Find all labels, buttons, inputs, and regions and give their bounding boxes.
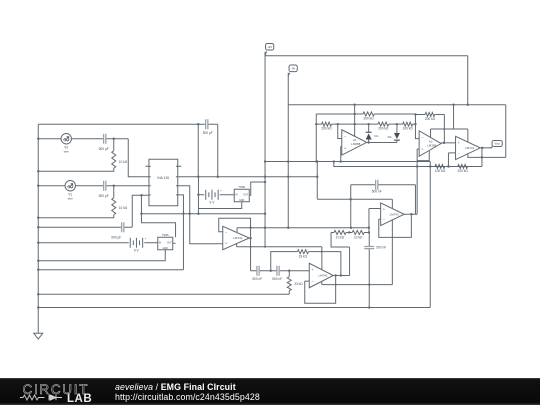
junction rail161 x264.8 <box>264 160 266 162</box>
wire supply right vertical x505.5 <box>505 105 507 158</box>
wire 10k left end down <box>331 232 350 275</box>
wire U5 output <box>333 274 349 276</box>
junction x481.7 rail157 <box>481 156 483 158</box>
wire bottom rail y307.3 <box>38 307 430 309</box>
wire U2 V+ power stub <box>467 129 469 142</box>
wire V2 row <box>38 139 149 177</box>
junction x369 y307.3 <box>368 306 370 308</box>
diode D2 <box>388 133 400 140</box>
junction caps mid <box>270 270 272 272</box>
svg-text:10 kΩ: 10 kΩ <box>336 235 345 239</box>
wire A2 minus input vertical <box>415 114 419 138</box>
voltage regulator 7905 #1 <box>234 185 249 202</box>
junction U2 minus rail166 <box>447 165 449 167</box>
svg-text:+: + <box>311 268 313 272</box>
svg-text:+: + <box>220 189 222 193</box>
wire battery2 to reg <box>220 194 235 196</box>
svg-text:500 nF: 500 nF <box>252 277 262 281</box>
wire lp filter top rail <box>351 185 416 215</box>
svg-text:D1: D1 <box>374 134 378 138</box>
resistor R3 200 kOhm (A1 feedback) <box>363 112 374 121</box>
wire A2 Vminus stub <box>417 151 429 161</box>
junction 33k x321.6 <box>321 251 323 253</box>
wire rail y166.2 <box>334 162 482 167</box>
wire V1 row <box>38 185 149 187</box>
svg-text:IN: IN <box>159 242 162 245</box>
svg-text:LM741: LM741 <box>233 236 243 240</box>
wire A2 V+ power stub <box>430 129 432 138</box>
wire rail y269.5 <box>38 269 183 271</box>
wire A1 plus input <box>341 147 342 162</box>
junction A1 stub rail113 <box>353 113 355 115</box>
svg-text:100 kΩ: 100 kΩ <box>435 169 446 173</box>
wire D1 vertical <box>368 124 370 142</box>
svg-text:100 kΩ: 100 kΩ <box>403 127 414 131</box>
junction mid rail x264.8 <box>264 213 266 215</box>
wire -9V rail y104.5 <box>288 104 506 106</box>
svg-text:−: − <box>421 136 423 140</box>
capacitor C5 500 uF (top rail) <box>203 119 213 135</box>
wire A2 feedback rail y114.2 <box>415 114 444 142</box>
CircuitLab logo <box>0 378 110 405</box>
wire U3 V- power stub <box>391 220 393 237</box>
junction U5 out x340 <box>340 274 342 276</box>
junction A1 out D1 <box>367 141 369 143</box>
svg-text:Vout: Vout <box>494 142 500 146</box>
wire U2 Vminus stub and bottom rail <box>468 154 506 157</box>
junction out rail x217.5 <box>217 176 219 178</box>
capacitor C8 500 nF <box>252 266 262 281</box>
svg-text:33 kΩ: 33 kΩ <box>294 282 303 286</box>
wire right vertical x430 <box>429 162 431 308</box>
voltage source V1 <box>65 181 75 201</box>
junction mid rail x189.5 <box>189 213 191 215</box>
svg-text:LM741: LM741 <box>465 146 475 150</box>
wire U4 V- rail y246.5 <box>237 246 322 248</box>
svg-text:+: + <box>225 242 227 246</box>
wire rail y199 <box>317 198 392 200</box>
resistor R11 10 kOhm <box>352 230 364 239</box>
junction bus-V1 row <box>37 185 39 187</box>
wire vertical from top rail to INA rail (x217.5) <box>217 124 219 177</box>
wire 7905#2 GND down <box>38 250 165 261</box>
resistor R7 200 kOhm (A2 feedback) <box>425 112 436 121</box>
junction x335.4 y284.4 <box>335 284 337 286</box>
node +9V flag <box>265 43 274 55</box>
wire U3 output <box>404 213 417 215</box>
junction out rail x264.8 <box>264 176 266 178</box>
junction x316 rail161 <box>315 160 317 162</box>
junction rail161 x317 <box>316 160 318 162</box>
wire mid rail y213.5 <box>141 213 265 215</box>
junction A1 stub -9v rail <box>353 104 355 106</box>
resistor R6 100 kOhm <box>403 122 414 130</box>
resistor R9 200 kOhm <box>458 164 469 173</box>
svg-text:10 kΩ: 10 kΩ <box>119 206 128 210</box>
wire 7905#1 GND <box>198 202 241 209</box>
junction A2 out node <box>443 142 445 144</box>
wire R13 stubs <box>288 271 290 295</box>
capacitor C1 500 uF <box>99 134 109 151</box>
wire U4 V- power stub <box>236 244 238 247</box>
svg-text:500 nF: 500 nF <box>272 277 282 281</box>
wire vertical x317 <box>316 162 318 200</box>
resistor R10 10 kOhm <box>334 230 346 239</box>
wire R1 top stub <box>113 186 115 198</box>
junction x350.5 y199 <box>350 198 352 200</box>
wire vertical x198 top rail to INA out rail <box>197 124 199 177</box>
svg-text:−: − <box>225 231 227 235</box>
junction top rail x198 <box>197 123 199 125</box>
svg-text:sine: sine <box>64 150 70 154</box>
junction U4 out <box>249 237 251 239</box>
wire battery2 left <box>198 177 204 214</box>
svg-text:LM741: LM741 <box>318 274 328 278</box>
node Vout flag <box>490 140 502 147</box>
wire U2 output <box>480 147 492 149</box>
wire x392.1 lower <box>391 237 393 284</box>
wire U5 V- stub rail y284.4 <box>322 284 393 286</box>
resistor R2 10 kOhm <box>112 151 128 169</box>
junction gnd drop mid rail <box>197 213 199 215</box>
wire INA out rail y176.5 <box>178 176 318 178</box>
svg-text:−: − <box>311 279 313 283</box>
wire U5 V+ power stub <box>321 247 323 269</box>
svg-text:200 kΩ: 200 kΩ <box>378 127 389 131</box>
junction V2-R2 node <box>113 138 115 140</box>
wire 33k feedback <box>271 252 341 276</box>
footer title text <box>115 382 260 402</box>
junction -9v rail x467 <box>467 104 469 106</box>
wire left ground bus <box>37 124 39 333</box>
wire INA pin3 right to first amp <box>178 186 223 244</box>
svg-text:500 nF: 500 nF <box>376 246 386 250</box>
junction bus-V2 row <box>37 138 39 140</box>
wire R1 bottom return <box>38 215 114 218</box>
wire A1 output row y142.3 <box>367 142 397 144</box>
svg-text:500 µF: 500 µF <box>99 147 109 151</box>
voltage regulator 7905 #2 <box>158 233 173 250</box>
junction bus ref row <box>37 226 39 228</box>
wire U5 V- power stub <box>321 281 323 284</box>
battery V4 9V <box>206 189 222 205</box>
wire U3 V+ power stub <box>391 199 393 208</box>
junction U3 out x411 <box>410 213 412 215</box>
ground <box>34 333 43 339</box>
wire A1 top feedback rail y113.7 <box>316 113 415 115</box>
junction rail161 x333.6 <box>333 160 335 162</box>
battery V3 9V <box>130 237 146 253</box>
svg-text:D2: D2 <box>388 135 392 139</box>
wire INA ref node down to mid rail <box>141 195 175 237</box>
op-amp U3 LM741 <box>381 203 405 226</box>
svg-text:LM358: LM358 <box>351 142 361 146</box>
wire battery V3 row <box>38 242 158 244</box>
junction x316 rail123.9 <box>315 123 317 125</box>
resistor R13 33 kOhm <box>287 277 303 291</box>
junction bus rail307 <box>37 306 39 308</box>
svg-text:-9V: -9V <box>291 66 295 70</box>
svg-text:INA 126: INA 126 <box>157 176 169 180</box>
svg-text:+9V: +9V <box>267 45 272 49</box>
junction D2 top <box>396 123 398 125</box>
svg-text:LM358: LM358 <box>427 143 437 147</box>
junction x317 out rail <box>316 176 318 178</box>
wire A1 minus input <box>338 124 342 138</box>
wire V+ stub rail y128.7 <box>431 128 468 130</box>
voltage source V2 <box>61 134 71 154</box>
junction node INA ref pin <box>140 194 142 196</box>
resistor R12 33 kOhm <box>297 250 308 259</box>
wire INA pin4 right down rail <box>178 195 184 270</box>
wire hp caps row <box>251 270 310 272</box>
wire U3 minus input loop <box>379 214 412 237</box>
junction rail227 x288 <box>287 227 289 229</box>
junction U2 out <box>481 147 483 149</box>
junction rail227 x351 <box>350 227 352 229</box>
wire top-left rail <box>38 123 218 125</box>
junction x415 rail123.9 <box>414 123 416 125</box>
wire 7905#1 OUT <box>249 182 265 195</box>
wire A1 input rail y123.9 <box>316 123 415 125</box>
svg-text:+: + <box>421 148 423 152</box>
svg-text:OUT: OUT <box>243 194 249 197</box>
junction rail227 x368.7 <box>368 227 370 229</box>
svg-text:sine: sine <box>68 197 74 201</box>
junction bus 7905#2 gnd rail <box>37 260 39 262</box>
svg-text:+: + <box>383 207 385 211</box>
wire A2 plus input vertical (from U3 out) <box>417 149 419 214</box>
wire INA pin1 stubs <box>145 165 181 167</box>
junction 10k mid <box>348 231 350 233</box>
wire rail y227.5 <box>237 227 369 229</box>
junction mid rail x141 <box>140 213 142 215</box>
wire +9V rail <box>265 56 468 105</box>
wire U2 feedback down <box>481 148 483 167</box>
svg-text:200 kΩ: 200 kΩ <box>458 169 469 173</box>
wire +9V vertical drop x264.8 <box>264 52 266 247</box>
capacitor C9 500 nF <box>272 266 282 281</box>
junction V1-R1 node <box>113 185 115 187</box>
junction x444 y128.7 <box>443 128 445 130</box>
wire U5 minus loop <box>305 275 336 303</box>
junction A2 plus rail166 <box>416 165 418 167</box>
junction x369 y284.4 <box>368 283 370 285</box>
diode D1 <box>366 132 379 139</box>
resistor R5 200 kOhm (mid) <box>378 122 389 130</box>
svg-text:7905: 7905 <box>238 185 245 189</box>
wire vertical x316 <box>315 114 317 162</box>
capacitor C6 500 nF <box>372 180 382 194</box>
svg-text:10 kΩ: 10 kΩ <box>354 235 363 239</box>
wire cap C7 vertical <box>368 232 370 307</box>
junction caps right <box>288 270 290 272</box>
svg-text:+: + <box>344 147 346 151</box>
svg-text:+: + <box>458 141 460 145</box>
wire rail y161.3 <box>265 161 430 163</box>
svg-text:GND: GND <box>163 247 169 250</box>
junction U5 out x335 <box>334 274 336 276</box>
wire lp vertical x350.5 <box>350 185 352 228</box>
resistor R8 100 kOhm <box>435 164 446 173</box>
junction A2 minus rail <box>414 113 416 115</box>
svg-text:−: − <box>344 135 346 139</box>
junction bus R1 return <box>37 217 39 219</box>
capacitor C3 500 uF <box>111 222 124 239</box>
svg-text:−: − <box>458 152 460 156</box>
junction rail227 x250.3 <box>249 227 251 229</box>
wire rail166 segs <box>445 165 482 167</box>
junction rail227 x264.8 <box>264 227 266 229</box>
svg-text:7905: 7905 <box>162 233 169 237</box>
wire rail y294 <box>38 293 289 295</box>
op-amp A1 LM358 <box>342 130 367 155</box>
svg-text:GND: GND <box>239 199 245 202</box>
svg-text:500 nF: 500 nF <box>372 190 382 194</box>
junction rail166 x448 <box>447 165 449 167</box>
junction bus rail269 <box>37 269 39 271</box>
junction bus rail294 <box>37 293 39 295</box>
wire D2 vertical <box>396 124 398 142</box>
wire -9V vertical x288 <box>287 73 289 228</box>
wire R2 bottom return <box>38 168 114 171</box>
junction rail161 x340.5 <box>340 160 342 162</box>
junction A1 stub rail123 <box>353 123 355 125</box>
wire U4 power stub <box>236 228 238 232</box>
op-amp U4 LM741 <box>223 226 250 250</box>
wire ref row y227 <box>38 195 149 227</box>
wire 10k row <box>331 231 369 233</box>
junction x250 y246.5 <box>250 246 252 248</box>
junction 10k right x368.7 <box>368 231 370 233</box>
svg-text:OUT: OUT <box>167 242 173 245</box>
svg-text:IN: IN <box>235 194 238 197</box>
wire U4 minus feedback <box>219 218 251 271</box>
junction A1 minus node <box>337 123 339 125</box>
resistor R1 10 kOhm <box>112 198 128 215</box>
op-amp A2 LM358 <box>419 131 441 156</box>
op-amp U5 LM741 <box>309 263 333 288</box>
node -9V flag <box>288 65 297 76</box>
svg-text:500 µF: 500 µF <box>203 131 213 135</box>
wire A1 V+ power stub <box>354 105 356 136</box>
junction x183 mid rail <box>182 213 184 215</box>
svg-text:LAB: LAB <box>67 393 92 405</box>
capacitor C7 500 nF <box>364 246 386 250</box>
wire U3 plus input <box>369 209 381 233</box>
svg-text:10 kΩ: 10 kΩ <box>119 160 128 164</box>
capacitor C2 500 uF <box>99 181 109 198</box>
junction -9v drop x264.8 <box>264 181 266 183</box>
junction out rail x198 <box>197 176 199 178</box>
wire -9V drop x453.3 <box>453 105 455 129</box>
wire A2 output to LM741 plus <box>441 142 455 144</box>
junction bus battery V3 <box>37 242 39 244</box>
svg-text:200 kΩ: 200 kΩ <box>321 127 332 131</box>
junction x264.8 y246.5 <box>264 246 266 248</box>
junction -9v rail x453 <box>452 104 454 106</box>
op-amp U2 LM741 <box>456 136 481 159</box>
svg-text:−: − <box>383 218 385 222</box>
junction rail166 x430 <box>429 165 431 167</box>
junction battery2 left <box>197 194 199 196</box>
resistor R4 200 kOhm (A1 input) <box>321 122 332 130</box>
junction rail161 x288 <box>287 160 289 162</box>
instrumentation amplifier U1 INA 126 <box>149 159 178 206</box>
wire R2 top stub <box>113 139 115 151</box>
svg-text:LM741: LM741 <box>390 212 400 216</box>
svg-text:200 kΩ: 200 kΩ <box>425 117 436 121</box>
wire 7905#2 OUT up <box>173 242 176 244</box>
junction bus R2 return <box>37 170 39 172</box>
svg-text:500 µF: 500 µF <box>99 194 109 198</box>
svg-text:33 kΩ: 33 kΩ <box>299 255 308 259</box>
svg-text:+: + <box>145 237 147 241</box>
svg-text:500 µF: 500 µF <box>111 235 121 239</box>
junction out rail x288 <box>287 176 289 178</box>
svg-text:200 kΩ: 200 kΩ <box>363 116 374 120</box>
wire U2 minus input <box>448 153 455 167</box>
junction D1 top <box>367 123 369 125</box>
